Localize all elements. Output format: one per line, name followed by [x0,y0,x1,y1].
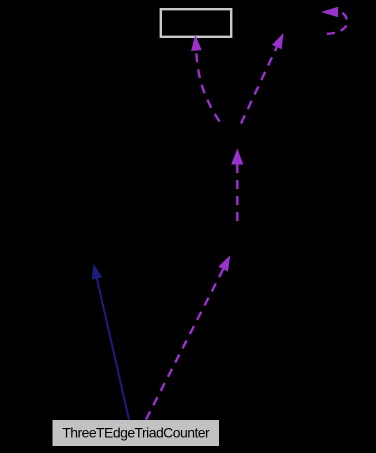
edge: ThreeTEdgeTriadCounter -> node E (solid midnight blue inheritance arrow) [92,264,129,420]
edge: node C -> node A (dashed purple curve, arrowhead up) [191,35,219,122]
edge: ThreeTEdgeTriadCounter -> node D (dashed purple line, arrowhead up-right) [146,255,230,419]
node ThreeTEdgeTriadCounter (gray filled box with black label) [53,420,220,446]
edge: node D -> node C (dashed purple vertical, arrowhead up) [231,149,243,222]
edge: node C -> node B (dashed purple line, arrowhead up-right) [241,33,284,124]
self-loop edge on node B (dashed purple, arrowhead pointing left) [321,7,347,34]
node A top box (empty, light gray border) [161,9,231,37]
svg-text:ThreeTEdgeTriadCounter: ThreeTEdgeTriadCounter [62,424,210,440]
